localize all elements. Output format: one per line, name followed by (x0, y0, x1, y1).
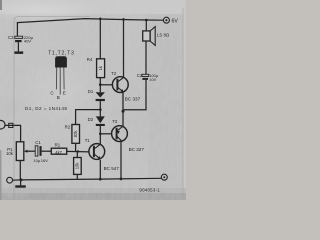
wire C1 to R1 (42, 150, 52, 152)
wire C3 top lead (16, 22, 18, 36)
resistor R3 (74, 158, 82, 175)
wire P1 bottom (19, 161, 21, 181)
svg-text:10k: 10k (6, 151, 14, 156)
svg-text:C3: C3 (8, 35, 14, 40)
transistor T1 (89, 144, 105, 160)
wire T2 base (100, 84, 113, 86)
svg-text:C2: C2 (137, 73, 143, 78)
svg-text:R2: R2 (65, 125, 71, 130)
terminal ground left (7, 177, 13, 183)
wire R2 bottom (75, 143, 77, 151)
wire T2 emitter to output node (122, 92, 124, 110)
capacitor C3 (15, 36, 23, 42)
svg-text:10V: 10V (149, 78, 156, 82)
ground (C3) (14, 51, 23, 54)
paper background (0, 0, 186, 200)
junction rail/R4 (99, 18, 102, 21)
wire T1 emitter (99, 160, 101, 179)
svg-text:R4: R4 (87, 57, 93, 62)
svg-text:BC 337: BC 337 (125, 96, 141, 101)
junction rail/T2 collector (122, 18, 125, 21)
svg-text:E: E (63, 90, 66, 95)
wire C3 to ground (17, 42, 19, 51)
input square pad (9, 123, 13, 127)
junction ground rail/P1 (20, 178, 23, 181)
wire R2 tap (76, 110, 101, 125)
node T2 base / R4 / D1 (99, 83, 102, 86)
svg-text:16V: 16V (41, 158, 48, 163)
node D2 / T3 base / T1 collector (99, 133, 102, 136)
svg-text:10k: 10k (75, 162, 80, 170)
ground (bottom) (15, 185, 25, 187)
capacitor C2 (142, 74, 149, 80)
wire C2 to speaker (145, 42, 147, 75)
wire R3 bottom (76, 174, 78, 179)
svg-text:R1: R1 (55, 142, 61, 147)
wire R4 top lead (99, 19, 101, 59)
wire base node to T1 (67, 150, 90, 153)
wire T3 base (100, 133, 111, 135)
frame border (faint) (14, 8, 183, 200)
svg-text:D1: D1 (88, 89, 94, 94)
junction rail/speaker (145, 19, 148, 22)
svg-text:82k: 82k (73, 130, 78, 138)
svg-text:40V: 40V (24, 38, 31, 43)
svg-text:D1, D2 = 1N4148: D1, D2 = 1N4148 (25, 106, 67, 111)
wire T2 collector (123, 19, 125, 78)
wire T1 collector (99, 134, 101, 145)
wire wiper to C1 (29, 150, 35, 152)
terminal +6V (163, 17, 169, 23)
node T1 base / R1 / R2 / R3 (77, 150, 79, 152)
node output (T2 emitter / T3 emitter / C2) (122, 110, 125, 113)
wire D1 to D2 (99, 101, 101, 116)
svg-text:D2: D2 (88, 117, 94, 122)
loudspeaker LS (143, 27, 156, 46)
wire top supply rail (17, 19, 163, 23)
wire R3 top (76, 151, 78, 157)
terminal ground right (161, 174, 167, 180)
terminal input (0, 120, 5, 129)
svg-text:B: B (57, 95, 60, 100)
svg-text:T1,T2,T3: T1,T2,T3 (48, 50, 74, 56)
svg-text:BC 327: BC 327 (129, 147, 145, 152)
wire speaker to rail (145, 20, 147, 31)
junction ground rail/T3 collector (120, 178, 123, 181)
diode D1 (96, 92, 105, 101)
wire R4 to node (99, 78, 101, 93)
svg-text:BC 547: BC 547 (104, 166, 120, 171)
wire T3 emitter (122, 110, 124, 127)
transistor T3 (112, 126, 128, 142)
resistor R4 (97, 59, 105, 78)
svg-text:4k7: 4k7 (55, 150, 62, 155)
wire input to P1 (5, 125, 21, 141)
svg-text:T3: T3 (112, 119, 118, 124)
capacitor C1 (35, 146, 41, 156)
wire bottom ground rail (12, 178, 161, 180)
junction ground rail/T1 emitter (99, 178, 102, 181)
wire output node to C2 (123, 80, 146, 110)
diode D2 (96, 116, 105, 126)
svg-text:T1: T1 (85, 138, 91, 143)
resistor R1 (51, 148, 66, 154)
wire T3 collector to rail (120, 141, 122, 179)
svg-text:LS 8Ω: LS 8Ω (157, 33, 169, 38)
svg-text:10µ: 10µ (33, 158, 40, 163)
potentiometer P1 (16, 142, 30, 161)
svg-text:904053-1: 904053-1 (139, 187, 160, 192)
TO-92 package legend (55, 56, 67, 94)
svg-text:C1: C1 (35, 140, 41, 145)
resistor R2 (72, 125, 80, 144)
wire P1 ground stub (20, 180, 22, 185)
wire D2 to node (99, 126, 101, 134)
svg-text:6V: 6V (172, 18, 179, 24)
transistor T2 (112, 77, 128, 93)
node D1/D2/R2 (99, 108, 102, 111)
svg-text:T2: T2 (111, 71, 117, 76)
